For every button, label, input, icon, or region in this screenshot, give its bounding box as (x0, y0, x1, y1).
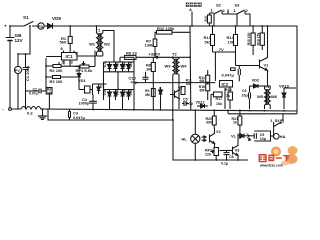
rail enclosure bottom (228, 113, 297, 115)
wire +320V node (125, 56, 135, 58)
svg-text:C1 200μ: C1 200μ (25, 65, 30, 81)
svg-text:R3 100: R3 100 (50, 79, 64, 84)
svg-text:VD12: VD12 (196, 101, 205, 105)
svg-text:VD10: VD10 (279, 84, 290, 89)
transformer T3 (265, 85, 271, 87)
svg-text:R10 130k: R10 130k (157, 26, 175, 31)
svg-text:S1: S1 (23, 15, 29, 20)
svg-text:3M: 3M (145, 93, 150, 97)
svg-text:T2: T2 (172, 52, 177, 57)
diode VD10 (283, 88, 285, 93)
resistor R8 1M (151, 63, 155, 72)
resistor R20 (212, 116, 216, 125)
voltmeter PV branch (18, 26, 30, 66)
svg-text:12V: 12V (15, 38, 24, 43)
svg-text:V2: V2 (178, 87, 182, 91)
diode VD12 (197, 105, 201, 107)
svg-text:A: A (189, 7, 192, 12)
regulator box 310 (208, 15, 212, 23)
diode VD3 (114, 65, 118, 69)
svg-text:R19: R19 (225, 88, 232, 92)
svg-text:1M: 1M (146, 67, 152, 72)
capacitor C9 loop (244, 135, 254, 137)
resistor R16 6M (206, 84, 210, 91)
svg-text:0.1μ: 0.1μ (186, 102, 193, 106)
diode bridge bottom row (104, 89, 135, 91)
svg-text:130k: 130k (145, 43, 155, 48)
svg-text:S2: S2 (216, 3, 222, 8)
inductor L 0.3 (21, 107, 41, 110)
diode VD6 (108, 92, 112, 96)
op-amp IC1 (62, 53, 78, 61)
wire base net (213, 52, 216, 81)
svg-text:PV: PV (15, 69, 21, 73)
svg-text:C8: C8 (229, 155, 234, 159)
diode VD9 (48, 24, 53, 29)
resistor R10 130k (157, 31, 173, 35)
svg-text:W6: W6 (271, 94, 278, 99)
capacitor C2 (104, 83, 107, 85)
svg-text:VD9: VD9 (52, 16, 61, 21)
resistor R15 (251, 33, 255, 45)
resistor R18 (260, 33, 264, 45)
switch S1 (24, 22, 33, 27)
svg-text:0.07μ: 0.07μ (29, 91, 38, 95)
ic IC2 (220, 81, 233, 88)
potentiometer RP2 (214, 148, 219, 156)
svg-text:HL: HL (182, 137, 188, 142)
svg-text:IC1: IC1 (66, 54, 74, 59)
wire node C4 (92, 84, 94, 95)
svg-text:VD7: VD7 (116, 89, 120, 95)
svg-text:5k1: 5k1 (205, 40, 212, 45)
capacitor 0.047u right (237, 69, 239, 75)
svg-text:W4: W4 (181, 64, 188, 69)
led VL (238, 135, 240, 137)
svg-text:W3: W3 (165, 64, 172, 69)
potentiometer RP1 5.6k (80, 65, 89, 68)
svg-text:W5: W5 (257, 94, 264, 99)
junction dots (9, 25, 11, 27)
svg-text:www.dzsc.com: www.dzsc.com (259, 164, 283, 168)
resistor R2 100 (53, 65, 61, 68)
resistor R13 (211, 35, 215, 46)
svg-text:1000p: 1000p (79, 102, 90, 106)
transistor V2 (174, 91, 176, 99)
capacitor C8 (224, 152, 230, 154)
svg-text:7V: 7V (219, 47, 224, 52)
svg-text:V1: V1 (264, 63, 270, 68)
svg-text:VD2: VD2 (252, 78, 261, 83)
diode VD8b (127, 92, 131, 96)
svg-text:10k: 10k (228, 40, 235, 45)
terminal minus (9, 108, 12, 111)
svg-text:1k: 1k (233, 121, 237, 125)
svg-text:6M: 6M (200, 88, 205, 92)
svg-text:+320V: +320V (149, 52, 161, 57)
svg-text:+: + (4, 24, 7, 29)
svg-text:0.1μ: 0.1μ (221, 162, 228, 166)
svg-text:560: 560 (60, 40, 67, 45)
lamp HL (191, 134, 200, 143)
diode VD4 (121, 65, 125, 69)
resistor R14 (234, 35, 238, 46)
svg-text:0.3: 0.3 (27, 111, 33, 116)
transistor V1 (259, 60, 261, 69)
wire IC1 pin4 to T1 (77, 51, 95, 57)
capacitor C10 47u (143, 76, 149, 78)
svg-text:7k: 7k (226, 94, 230, 98)
capacitor C4 (90, 100, 97, 102)
svg-text:R17: R17 (216, 97, 223, 101)
svg-text:VL: VL (231, 133, 237, 138)
svg-text:16k: 16k (216, 102, 222, 106)
svg-text:VD5: VD5 (129, 61, 133, 67)
diode VD7b (114, 92, 118, 96)
svg-text:6M: 6M (186, 82, 191, 86)
svg-text:310: 310 (204, 16, 208, 22)
transformer T2 (172, 57, 174, 58)
svg-text:VD6: VD6 (103, 89, 107, 95)
svg-text:V2: V2 (216, 130, 221, 134)
transformer T1 (96, 26, 98, 33)
wire bridge mid (117, 72, 119, 90)
svg-text:R2 100: R2 100 (50, 68, 64, 73)
capacitor C5 (183, 101, 185, 106)
svg-text:RP1 5.6k: RP1 5.6k (76, 68, 93, 73)
phototransistor V2b (209, 135, 211, 143)
thyristor VS (97, 87, 101, 91)
wire bottom right rail (173, 120, 248, 160)
resistor R11 (181, 87, 185, 95)
wire vertical x190 (189, 26, 192, 110)
watermark (259, 146, 298, 168)
transistor V3 (232, 147, 234, 155)
wire top rail left (10, 25, 24, 27)
svg-text:390: 390 (206, 121, 212, 125)
box VS trigger (85, 86, 91, 93)
svg-text:VD3: VD3 (116, 61, 120, 67)
svg-text:T1: T1 (96, 28, 101, 33)
diode VD2 (108, 65, 112, 69)
resistor R17 16k (214, 92, 223, 97)
wire top rail right (53, 25, 298, 27)
antenna lead 接电围栏 (191, 12, 193, 27)
light bolt (247, 134, 251, 140)
svg-text:T3: T3 (265, 85, 269, 89)
net label jie-dian-wei-lan (electric fence) (186, 3, 190, 7)
fuse FA (38, 23, 44, 29)
wire bus y82.6 (134, 82, 215, 84)
svg-text:0.047μ: 0.047μ (73, 116, 86, 120)
svg-text:VD7: VD7 (159, 87, 163, 93)
wire right edge (296, 26, 298, 111)
svg-text:S4: S4 (275, 118, 281, 123)
svg-text:24k: 24k (47, 91, 53, 95)
svg-text:C6: C6 (242, 89, 247, 93)
svg-text:R18 15k: R18 15k (256, 32, 260, 45)
diode VD8 (121, 92, 125, 96)
svg-text:10μ: 10μ (242, 94, 248, 98)
capacitor C6 10u (248, 93, 250, 99)
svg-text:IC2: IC2 (222, 82, 229, 87)
resistor R1 560 (68, 36, 72, 43)
svg-text:R15 150: R15 150 (247, 32, 251, 45)
diode bridge top row (104, 61, 135, 63)
svg-text:C2: C2 (100, 85, 104, 89)
diode VD1 (78, 66, 80, 73)
resistor R4 24k (46, 88, 52, 95)
wire lamp lead (194, 110, 196, 135)
resistor R6 (125, 55, 137, 59)
svg-text:HA: HA (280, 134, 286, 139)
svg-text:FA: FA (38, 24, 43, 29)
switch S4 (274, 123, 281, 127)
svg-text:VD9: VD9 (129, 89, 133, 95)
svg-text:V3: V3 (235, 148, 241, 153)
wire enclosure left (224, 88, 226, 109)
diode VD7 (160, 87, 162, 90)
svg-text:0.047μ: 0.047μ (222, 73, 235, 78)
ground (42, 109, 44, 116)
svg-text:W2: W2 (104, 42, 111, 47)
resistor R19 7k (228, 92, 233, 100)
svg-text:VD8: VD8 (123, 89, 127, 95)
diode VD5 (127, 65, 131, 69)
svg-text:6M: 6M (200, 79, 205, 83)
diode VD2 (250, 85, 254, 87)
light arrows (202, 136, 207, 138)
switch S3 (237, 10, 245, 14)
resistor R9 3M (151, 89, 155, 97)
resistor R7 130k (153, 39, 157, 47)
wire bottom rail (11, 108, 21, 110)
svg-text:VD2: VD2 (103, 61, 107, 67)
svg-text:VD1: VD1 (78, 78, 87, 83)
wire W2 to bridge (103, 31, 114, 63)
wire lower bus (48, 109, 173, 120)
svg-text:R6 23: R6 23 (126, 51, 137, 56)
sounder HA (274, 134, 280, 140)
resistor R21 (238, 116, 242, 125)
svg-text:47μ: 47μ (131, 80, 138, 85)
switch S2 (214, 10, 222, 14)
capacitor C2 0.07u (26, 90, 40, 92)
resistor R11 6M (206, 75, 210, 82)
svg-text:VD4: VD4 (123, 61, 127, 67)
svg-text:22k: 22k (205, 153, 211, 157)
svg-text:10μ: 10μ (260, 137, 266, 141)
svg-text:S3: S3 (235, 3, 241, 8)
battery GB branch (9, 26, 11, 37)
resistor R3 100 (53, 76, 61, 79)
capacitor C3 (68, 112, 70, 118)
capacitor C1 (25, 54, 27, 68)
svg-text:W1: W1 (89, 42, 96, 47)
